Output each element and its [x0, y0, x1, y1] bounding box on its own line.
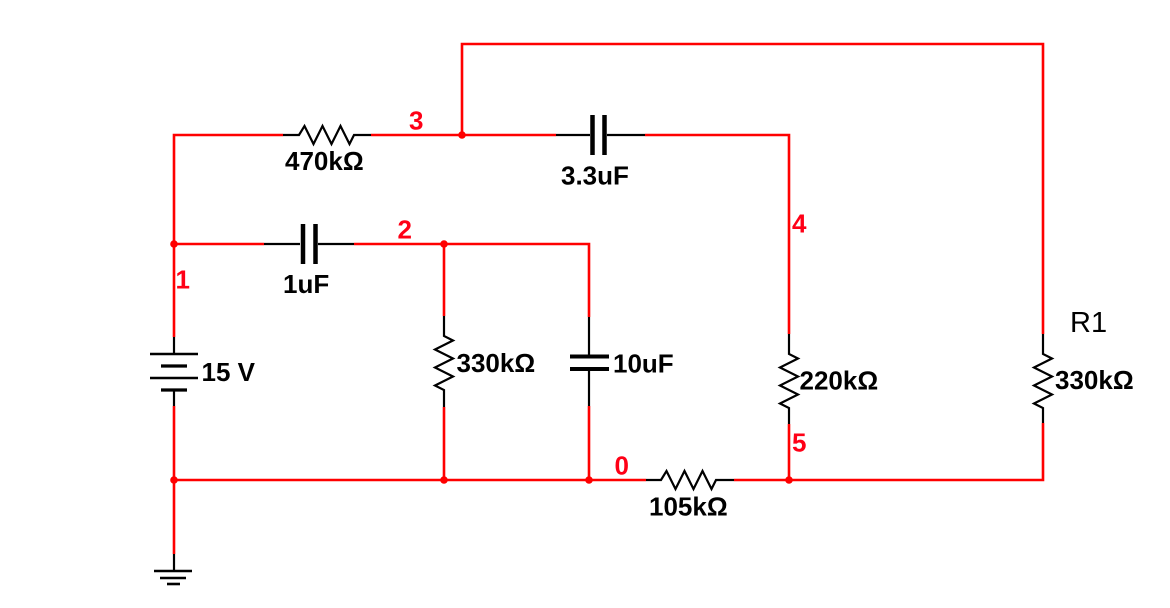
svg-text:330kΩ: 330kΩ [457, 348, 536, 378]
svg-text:2: 2 [398, 215, 412, 245]
svg-text:10uF: 10uF [613, 349, 674, 379]
svg-text:105kΩ: 105kΩ [649, 492, 728, 522]
wire node3 to 3.3uF [462, 134, 556, 137]
wire battery to bottom rail [173, 406, 176, 480]
svg-text:3: 3 [409, 106, 423, 136]
wire node1 to 1uF [174, 243, 264, 246]
battery V1 15 V [150, 337, 198, 406]
ground [154, 554, 192, 584]
wire 330k to bottom rail [443, 407, 446, 480]
resistor R1 330kOhm vertical [1034, 334, 1052, 423]
svg-text:15 V: 15 V [202, 357, 256, 387]
junction node 3 [458, 131, 466, 139]
wire 1uF to node2 to 10uF drop [354, 244, 589, 317]
svg-text:1uF: 1uF [283, 269, 329, 299]
capacitor 1uF [264, 224, 354, 264]
wire 470k to node3 [371, 134, 462, 137]
resistor 105kOhm horizontal [646, 471, 734, 489]
junction node 1 [170, 240, 178, 248]
resistor 470kOhm horizontal [283, 126, 371, 144]
junction 10uF bottom [585, 476, 593, 484]
svg-text:470kΩ: 470kΩ [285, 146, 364, 176]
wire node2 to 330k [443, 244, 446, 316]
capacitor 10uF [570, 317, 609, 406]
wire 105k to node5 [734, 479, 789, 482]
svg-text:330kΩ: 330kΩ [1055, 365, 1134, 395]
wire top rail node3 to R1 [462, 44, 1043, 334]
wire bottom rail left [174, 479, 646, 482]
wire 220k to node5 [788, 424, 791, 480]
wire bottom rail right to R1 [789, 423, 1043, 480]
wire left rail top [174, 135, 283, 337]
svg-text:1: 1 [176, 265, 190, 295]
capacitor 3.3uF [556, 115, 645, 155]
svg-text:R1: R1 [1070, 307, 1107, 339]
junction node 5 [785, 476, 793, 484]
svg-text:4: 4 [792, 209, 807, 239]
wire 3.3uF to node4 to 220k [645, 135, 789, 334]
resistor 220kOhm vertical [780, 334, 798, 424]
junction node 2 [440, 240, 448, 248]
svg-text:3.3uF: 3.3uF [561, 161, 629, 191]
resistor 330kOhm vertical (node2) [435, 316, 453, 407]
wire ground drop [173, 480, 176, 554]
svg-text:5: 5 [792, 428, 806, 458]
junction bottom-left [170, 476, 178, 484]
svg-text:0: 0 [615, 451, 629, 481]
junction 330k bottom [440, 476, 448, 484]
svg-text:220kΩ: 220kΩ [800, 366, 879, 396]
wire 10uF to bottom rail [588, 406, 591, 480]
